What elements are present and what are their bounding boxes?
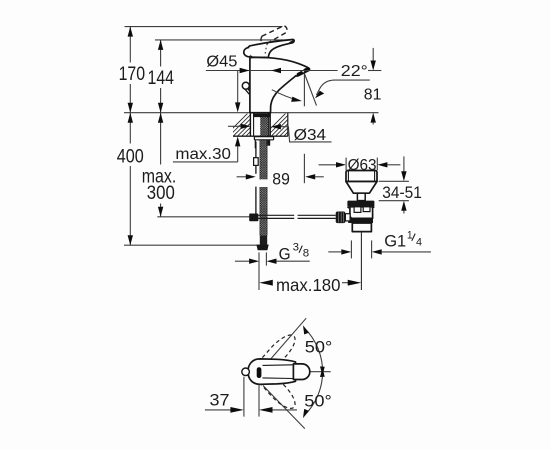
svg-text:Ø45: Ø45 xyxy=(206,54,237,71)
svg-text:Ø34: Ø34 xyxy=(294,127,327,144)
swing arc upper xyxy=(304,328,323,374)
dimension 170 xyxy=(119,27,146,113)
handle swing diagonal down 50° xyxy=(263,386,305,429)
pop-up rod knob behind body xyxy=(242,82,249,94)
lever handle (rest position) xyxy=(248,39,295,57)
svg-text:22°: 22° xyxy=(341,63,368,80)
dimension 37 xyxy=(205,377,297,417)
drain cup Ø63 xyxy=(346,171,377,182)
svg-text:4: 4 xyxy=(416,237,422,249)
knurled lock flange xyxy=(347,201,374,207)
drain neck taper xyxy=(346,182,377,194)
svg-text:400: 400 xyxy=(117,147,144,168)
svg-text:8: 8 xyxy=(303,248,309,260)
svg-text:144: 144 xyxy=(148,68,175,89)
svg-text:G: G xyxy=(279,245,291,263)
handle inner lines xyxy=(263,364,294,367)
lever front lip xyxy=(244,47,251,56)
G1 1/4 thread stub xyxy=(352,223,371,232)
dimension Ø45 xyxy=(206,54,381,74)
solid handle body (top view) xyxy=(248,359,296,384)
svg-text:300: 300 xyxy=(147,183,175,204)
countertop hatched section xyxy=(224,113,307,137)
dimension 34-51 xyxy=(379,156,422,213)
dimension 144 xyxy=(148,40,175,113)
knob connector xyxy=(345,214,350,221)
dimension max.30 xyxy=(173,71,241,164)
horizontal pop-up lever rod xyxy=(249,212,350,224)
dimension G1 1/4 xyxy=(328,229,431,258)
extension line rod level (max.300 bottom) xyxy=(157,216,250,218)
G3/8 connection nut xyxy=(256,245,268,251)
svg-text:89: 89 xyxy=(272,170,290,189)
dimension 81 xyxy=(364,48,382,125)
counter right edge xyxy=(287,113,289,137)
extension line hose end (400 bottom) xyxy=(124,244,269,246)
dimension Ø34 xyxy=(228,124,332,145)
drain body xyxy=(350,207,373,219)
dimension G3/8 xyxy=(235,242,310,290)
dimension max.300 xyxy=(142,113,177,217)
swing arc lower xyxy=(304,370,323,416)
svg-text:50°: 50° xyxy=(305,338,333,356)
dimension 400 xyxy=(117,113,144,246)
handle centerline xyxy=(300,371,331,373)
svg-text:1: 1 xyxy=(407,229,413,241)
svg-text:50°: 50° xyxy=(304,393,332,411)
drain bottom flange xyxy=(348,218,373,223)
extension line top (raised lever height 170) xyxy=(125,26,283,28)
svg-text:max.180: max.180 xyxy=(276,275,341,295)
dashed handle raised 50° xyxy=(246,330,301,386)
handle slot xyxy=(257,367,262,378)
svg-text:3: 3 xyxy=(293,242,299,254)
dimension max.180 xyxy=(259,275,361,295)
mounting washer under counter xyxy=(254,137,273,149)
raised lever (dashed position) xyxy=(261,26,287,44)
threaded shank through counter xyxy=(250,113,270,136)
dimension Ø63 xyxy=(319,157,401,174)
dimension 89 xyxy=(237,154,324,189)
dimension 22° xyxy=(272,63,370,106)
pivot circle xyxy=(242,368,250,376)
faucet body with spout xyxy=(250,57,310,112)
svg-text:G1: G1 xyxy=(384,232,406,250)
counter bottom line xyxy=(233,135,288,137)
svg-text:37: 37 xyxy=(210,391,230,409)
svg-text:max.30: max.30 xyxy=(175,146,231,163)
dotted cartridge dome xyxy=(265,44,267,57)
dashed handle lowered 50° xyxy=(246,358,301,414)
svg-text:81: 81 xyxy=(364,86,382,103)
rod clamp block xyxy=(249,214,258,222)
flexible supply hose (braided) xyxy=(260,140,267,245)
extension line (lever top 144) xyxy=(155,39,293,41)
handle swing diagonal up 50° xyxy=(262,318,306,369)
pull rod xyxy=(254,142,259,214)
pop-up waste drain assembly xyxy=(346,171,377,291)
drain center line xyxy=(360,232,362,290)
svg-text:170: 170 xyxy=(119,64,146,85)
knurled knob at drain xyxy=(336,212,346,224)
extension line counter surface xyxy=(124,112,379,114)
aerator outlet xyxy=(296,66,310,76)
handle lever tip xyxy=(293,364,309,380)
valve stem block xyxy=(357,193,365,200)
svg-text:Ø63: Ø63 xyxy=(348,157,377,174)
svg-text:34-51: 34-51 xyxy=(382,184,422,202)
